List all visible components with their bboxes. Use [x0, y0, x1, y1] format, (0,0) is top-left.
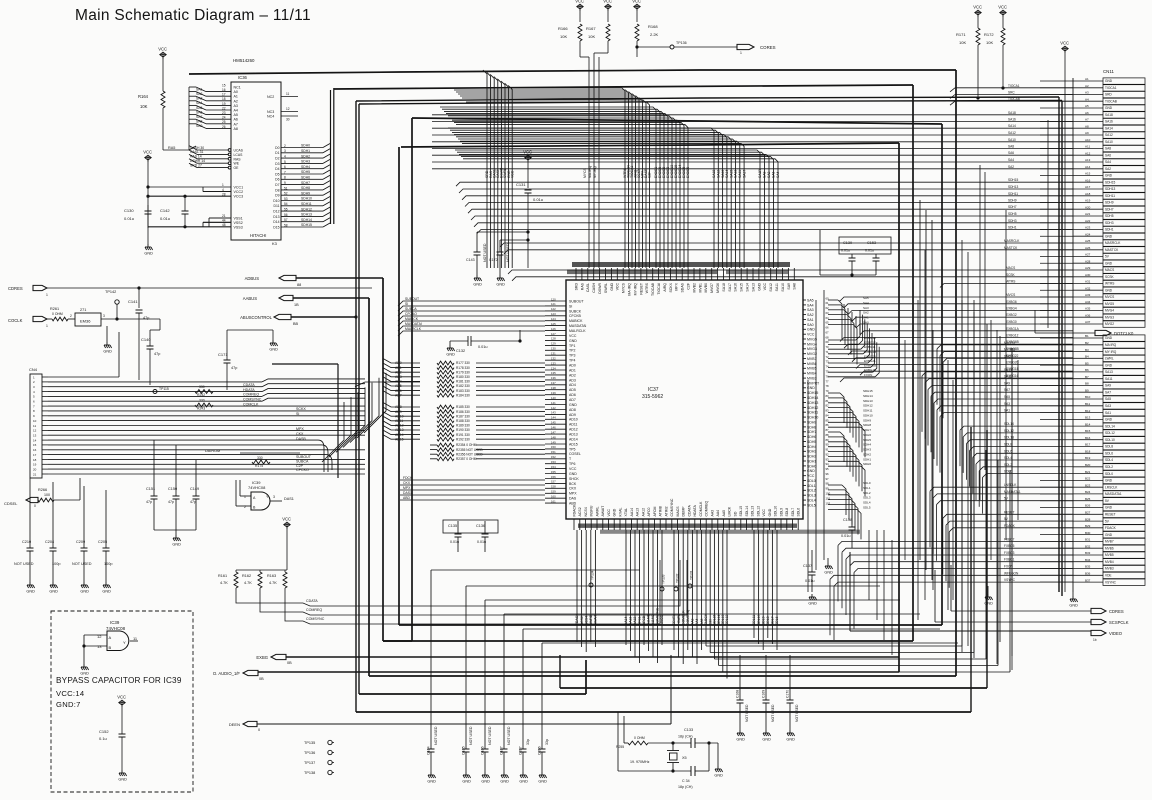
bus wire loop F right [898, 143, 900, 672]
svg-text:SDH9: SDH9 [1008, 199, 1017, 203]
svg-text:SA13: SA13 [1105, 370, 1113, 374]
svg-text:CKX: CKX [296, 432, 304, 436]
svg-text:SA3: SA3 [1105, 404, 1111, 408]
power VCC (C131) [523, 149, 532, 162]
svg-text:CDRES: CDRES [8, 286, 23, 291]
svg-text:TP2: TP2 [569, 349, 575, 353]
svg-text:MACS: MACS [676, 506, 680, 517]
svg-text:D0: D0 [275, 146, 279, 150]
svg-text:B26: B26 [1085, 504, 1091, 508]
svg-text:47p: 47p [190, 500, 196, 504]
bus wire loop F left vertical [398, 147, 400, 625]
svg-text:C164: C164 [427, 746, 431, 755]
svg-text:SDH13: SDH13 [1105, 187, 1116, 191]
svg-text:47p: 47p [143, 316, 149, 320]
svg-text:A12: A12 [1085, 151, 1091, 155]
svg-text:12: 12 [33, 429, 37, 433]
svg-text:0.01u: 0.01u [478, 345, 488, 349]
svg-text:GND: GND [569, 403, 577, 407]
svg-text:R171: R171 [956, 32, 966, 37]
svg-text:SA18: SA18 [1105, 113, 1113, 117]
svg-text:GND:7: GND:7 [56, 700, 81, 709]
svg-text:47p: 47p [146, 500, 152, 504]
resistor R261 0 OHM [47, 307, 75, 321]
svg-text:MASDATAI: MASDATAI [569, 324, 586, 328]
svg-text:SDL4: SDL4 [863, 501, 871, 505]
IC37 bottom bundle group SDL hi [704, 530, 729, 679]
svg-text:DAS1: DAS1 [284, 497, 294, 501]
svg-text:120: 120 [551, 297, 556, 301]
svg-text:MPX: MPX [569, 492, 577, 496]
svg-text:SDH9: SDH9 [863, 418, 871, 422]
wire ADBUS [296, 277, 383, 279]
svg-text:MPX: MPX [296, 427, 304, 431]
svg-text:SNC: SNC [1004, 354, 1011, 358]
svg-text:SDH8: SDH8 [301, 186, 310, 190]
svg-text:139: 139 [551, 391, 556, 395]
IC36 left address pins SA1-SA9 [189, 83, 241, 130]
svg-text:IC39: IC39 [110, 620, 120, 625]
svg-text:SA8: SA8 [763, 171, 767, 178]
svg-text:3: 3 [273, 495, 275, 499]
IC37 bottom bundle group CDATA [672, 530, 704, 664]
svg-text:MVB4: MVB4 [1105, 560, 1114, 564]
capacitor C138 0.01u [841, 505, 856, 548]
svg-text:SDH3: SDH3 [301, 160, 310, 164]
svg-text:D3: D3 [275, 162, 279, 166]
svg-text:3: 3 [103, 314, 105, 318]
svg-text:EXBG9: EXBG9 [686, 167, 690, 178]
svg-text:SDH2: SDH2 [863, 452, 871, 456]
svg-text:MVB4: MVB4 [807, 372, 817, 376]
svg-text:MACS: MACS [660, 614, 664, 625]
svg-text:152: 152 [551, 455, 556, 459]
connector arrow CDRES [8, 285, 48, 297]
svg-text:D4: D4 [275, 167, 279, 171]
svg-text:89: 89 [826, 438, 830, 442]
svg-text:94: 94 [826, 462, 830, 466]
svg-text:AD3: AD3 [569, 378, 576, 382]
wire COMSYNC to bottom [285, 560, 660, 624]
svg-text:SDL2: SDL2 [1105, 465, 1113, 469]
svg-text:MA-IRQ: MA-IRQ [588, 165, 592, 178]
svg-text:SCSK: SCSK [1006, 273, 1016, 277]
svg-text:SDH5: SDH5 [1105, 214, 1114, 218]
wire RAS to IC36 [163, 146, 196, 150]
svg-text:SDL7: SDL7 [771, 616, 775, 625]
svg-text:UCAS: UCAS [234, 149, 244, 153]
svg-text:AD0: AD0 [569, 364, 576, 368]
IC37 right fan wires SDH group [828, 389, 873, 496]
svg-text:HM514260: HM514260 [233, 58, 255, 63]
bus wire loop E top [412, 118, 942, 124]
svg-text:MVB7: MVB7 [1105, 540, 1114, 544]
svg-text:CDATA: CDATA [687, 504, 691, 516]
svg-text:AD7: AD7 [569, 398, 576, 402]
svg-text:66: 66 [826, 326, 830, 330]
svg-text:C137: C137 [803, 564, 812, 568]
svg-text:MVCS: MVCS [1006, 293, 1015, 297]
svg-text:VCC: VCC [763, 283, 767, 291]
svg-text:A7: A7 [1085, 118, 1089, 122]
wire AABUS [293, 297, 369, 299]
svg-text:SDL0: SDL0 [1105, 472, 1113, 476]
svg-text:SA10: SA10 [781, 283, 785, 292]
svg-text:AD5: AD5 [395, 384, 402, 388]
svg-text:SDH14: SDH14 [301, 218, 312, 222]
resistor R243 330 [195, 399, 213, 411]
svg-text:33p: 33p [526, 739, 530, 745]
svg-text:MVG2: MVG2 [1105, 322, 1114, 326]
svg-text:AD8: AD8 [569, 408, 576, 412]
svg-text:GND: GND [446, 353, 455, 357]
IC36 data pins D0-D15 to SDH bus [273, 144, 330, 230]
svg-text:TP1: TP1 [569, 344, 575, 348]
svg-text:RAS 14: RAS 14 [190, 155, 202, 159]
svg-text:CDSEL: CDSEL [4, 501, 18, 506]
svg-text:MPX: MPX [675, 282, 679, 290]
svg-text:TP133: TP133 [662, 574, 666, 584]
svg-text:CFCAO: CFCAO [405, 312, 417, 316]
bus wire loop A left [368, 298, 370, 676]
svg-text:AD10: AD10 [395, 414, 404, 418]
svg-text:D2: D2 [275, 157, 279, 161]
svg-text:MASRCLK: MASRCLK [1004, 239, 1020, 243]
svg-text:AD14: AD14 [569, 437, 578, 441]
bus wire pair C right [1058, 97, 1060, 592]
IC37 top label smear band 1 [572, 262, 790, 267]
svg-text:MVG6: MVG6 [716, 283, 720, 293]
bus bundle MYCS group labels [583, 165, 597, 178]
svg-text:C 34: C 34 [682, 779, 690, 783]
svg-text:0.01u: 0.01u [841, 534, 851, 538]
svg-text:TP136: TP136 [304, 751, 315, 755]
ground C171 [269, 340, 278, 352]
svg-text:C142: C142 [160, 208, 170, 213]
svg-text:B11: B11 [1085, 402, 1090, 406]
svg-text:B18: B18 [1085, 450, 1091, 454]
svg-text:A14: A14 [1085, 165, 1091, 169]
svg-text:GND: GND [49, 590, 58, 594]
ground below CN11 B rows [984, 586, 993, 606]
svg-text:A29: A29 [1085, 266, 1091, 270]
svg-text:TP132: TP132 [676, 573, 680, 583]
svg-text:SDH6: SDH6 [863, 433, 871, 437]
svg-text:C132: C132 [456, 349, 465, 353]
svg-text:EXBG1A: EXBG1A [1006, 327, 1020, 331]
svg-text:TIOCAB: TIOCAB [1008, 97, 1020, 101]
IC36 NC pins right [267, 92, 298, 122]
crystal X5 19.970MHz [630, 743, 687, 771]
svg-text:R172: R172 [984, 32, 994, 37]
svg-text:HDATA: HDATA [693, 504, 697, 516]
svg-text:SA0: SA0 [807, 323, 814, 327]
svg-text:SDH7: SDH7 [1008, 205, 1017, 209]
svg-text:MASDATAI: MASDATAI [405, 322, 422, 326]
svg-text:0.01u: 0.01u [477, 540, 486, 544]
svg-text:SDH11: SDH11 [301, 202, 312, 206]
resistor R168 2.2K [635, 11, 659, 47]
bypass capacitor box for IC39 [51, 611, 193, 792]
svg-text:4.7K: 4.7K [269, 581, 277, 585]
svg-text:WTRS: WTRS [1105, 282, 1114, 286]
svg-text:SDL6: SDL6 [1105, 452, 1113, 456]
svg-text:MASRCLK: MASRCLK [1105, 241, 1121, 245]
svg-text:VCC: VCC [762, 509, 766, 517]
bus wire loop B top [334, 85, 913, 89]
title text [75, 7, 311, 24]
svg-text:0B: 0B [259, 677, 264, 681]
svg-text:C135: C135 [448, 524, 457, 528]
bus bundle WTRS group verticals [452, 88, 652, 268]
svg-text:A3: A3 [1085, 91, 1089, 95]
svg-text:AD6: AD6 [569, 393, 576, 397]
wire VCC to CN11 [1064, 53, 1066, 592]
wire risers x920 group [920, 200, 932, 580]
svg-text:SA13: SA13 [751, 283, 755, 292]
svg-text:SA6: SA6 [1008, 151, 1014, 155]
svg-text:AIRQ: AIRQ [663, 283, 667, 292]
svg-text:SA16: SA16 [1105, 120, 1113, 124]
svg-text:GND: GND [500, 780, 509, 784]
wire risers right of IC37 [962, 300, 1012, 656]
ground C143 [473, 275, 482, 287]
svg-text:R178 330: R178 330 [456, 366, 470, 370]
IC37 left pins [545, 297, 586, 505]
CN11 B-side SDL labels [1004, 422, 1014, 474]
svg-text:10K: 10K [140, 104, 148, 109]
svg-text:B7: B7 [1085, 375, 1089, 379]
svg-text:18p (CH): 18p (CH) [678, 735, 693, 739]
svg-text:AD9: AD9 [569, 413, 576, 417]
svg-text:16: 16 [33, 448, 37, 452]
capacitor C167 [500, 614, 921, 772]
resistor R171 10K [956, 17, 980, 99]
svg-text:GND: GND [762, 738, 771, 742]
svg-text:ACS2: ACS2 [578, 507, 582, 516]
test point TP138 [304, 770, 334, 775]
svg-text:SDL0: SDL0 [863, 481, 871, 485]
svg-text:A10: A10 [1085, 138, 1091, 142]
IC37 bottom bundle group AA [624, 530, 664, 663]
svg-text:AD11: AD11 [395, 419, 403, 423]
svg-text:NOT USED: NOT USED [506, 243, 510, 262]
svg-text:SUBOUT: SUBOUT [296, 455, 312, 459]
svg-text:GND: GND [481, 780, 490, 784]
svg-text:C2P: C2P [296, 464, 304, 468]
svg-text:B15: B15 [1085, 429, 1091, 433]
svg-text:B23: B23 [1085, 483, 1091, 487]
svg-text:SDH5: SDH5 [863, 438, 871, 442]
svg-text:R182 330: R182 330 [456, 384, 470, 388]
connector arrow EXBG [256, 654, 292, 665]
svg-text:C206: C206 [538, 746, 542, 755]
svg-text:SA17: SA17 [728, 283, 732, 292]
svg-text:R179 330: R179 330 [456, 370, 470, 374]
IC37 right fan wires SDL group [828, 481, 871, 539]
svg-text:AD2: AD2 [569, 373, 576, 377]
svg-text:NOT USED: NOT USED [745, 704, 749, 722]
capacitor C132 0.01u [446, 330, 521, 357]
svg-text:SDH10: SDH10 [301, 197, 312, 201]
svg-text:SA4: SA4 [1105, 160, 1111, 164]
svg-text:AWRB: AWRB [589, 614, 593, 625]
ground C168 [736, 730, 745, 742]
svg-text:SDL10: SDL10 [1105, 438, 1115, 442]
svg-text:COMREQ: COMREQ [705, 500, 709, 516]
svg-text:SA12: SA12 [1008, 131, 1016, 135]
svg-text:SDH3: SDH3 [1008, 219, 1017, 223]
IC37 bottom pins [572, 498, 800, 530]
svg-text:EXBG6: EXBG6 [1006, 300, 1017, 304]
test point TP133 [660, 574, 666, 591]
bus wire loop A bottom [369, 675, 956, 677]
svg-text:R163: R163 [267, 574, 276, 578]
svg-text:SDH15: SDH15 [863, 389, 873, 393]
ic 271 EM36 filter [70, 308, 105, 326]
svg-text:A16: A16 [1085, 178, 1091, 182]
ground C169 [762, 730, 771, 742]
svg-text:CORES: CORES [760, 45, 776, 50]
capacitor C209 [76, 486, 88, 582]
svg-text:GND: GND [172, 543, 181, 547]
capacitor C130 0.01u [124, 205, 152, 228]
svg-text:TP134: TP134 [591, 570, 595, 580]
svg-text:LRSCLK: LRSCLK [1105, 485, 1118, 489]
svg-text:SDL12: SDL12 [756, 506, 760, 517]
svg-text:A5: A5 [234, 113, 238, 117]
svg-text:FXON: FXON [864, 373, 872, 377]
svg-text:1: 1 [740, 51, 742, 55]
CN11 feed wires SA group [432, 111, 1073, 169]
wire crossing verticals right mid [808, 120, 1048, 655]
svg-text:A15: A15 [1085, 172, 1091, 176]
svg-text:B13: B13 [1085, 416, 1091, 420]
svg-text:C166: C166 [481, 746, 485, 755]
power VCC (R166) [575, 0, 584, 11]
svg-text:MVB6: MVB6 [807, 362, 817, 366]
svg-text:SDL6: SDL6 [1004, 449, 1012, 453]
svg-text:82: 82 [826, 404, 830, 408]
ground C167 [500, 772, 509, 784]
svg-text:AD12: AD12 [569, 428, 578, 432]
ic IC36 HM514260 body [231, 58, 281, 246]
svg-text:B3: B3 [1085, 348, 1089, 352]
svg-text:CDATA: CDATA [306, 599, 318, 603]
svg-text:VCC: VCC [998, 4, 1007, 9]
svg-text:DSWR: DSWR [598, 283, 602, 294]
svg-text:SA3: SA3 [863, 306, 869, 310]
svg-text:XTAL: XTAL [624, 508, 628, 517]
svg-text:SA1: SA1 [807, 318, 814, 322]
svg-text:EM36: EM36 [80, 319, 91, 324]
svg-text:GND: GND [269, 348, 278, 352]
svg-text:SDL8: SDL8 [785, 508, 789, 517]
svg-text:SDL1: SDL1 [863, 486, 871, 490]
svg-text:124: 124 [551, 317, 556, 321]
svg-text:GND: GND [80, 672, 89, 676]
svg-text:AFCM: AFCM [653, 507, 657, 517]
test point TP135 [304, 740, 334, 745]
svg-text:47p: 47p [154, 352, 160, 356]
svg-text:A5: A5 [1085, 104, 1089, 108]
svg-text:2: 2 [70, 314, 72, 318]
svg-text:B9: B9 [1085, 388, 1089, 392]
svg-text:SDH4: SDH4 [863, 443, 871, 447]
svg-text:A3: A3 [234, 104, 238, 108]
svg-text:SDH7: SDH7 [301, 181, 310, 185]
svg-text:SDH14: SDH14 [863, 394, 873, 398]
svg-text:R166: R166 [558, 26, 568, 31]
svg-text:TIOCAB: TIOCAB [651, 282, 655, 296]
svg-text:SDH11: SDH11 [807, 411, 818, 415]
ground C207 [519, 772, 528, 784]
bus wire loop B right [912, 85, 914, 641]
wire diagonal bundle CN4 to IC37 feeds [322, 373, 386, 462]
svg-text:AD14: AD14 [395, 433, 404, 437]
svg-text:AFC0: AFC0 [647, 508, 651, 517]
svg-text:SDL1B: SDL1B [1004, 436, 1014, 440]
resistor R255 0 OHM [616, 712, 691, 771]
connector arrow ADBUS [245, 275, 302, 287]
svg-text:AD12: AD12 [395, 424, 404, 428]
svg-text:SDH0: SDH0 [863, 462, 871, 466]
svg-text:C2F: C2F [687, 283, 691, 290]
svg-text:SDL7: SDL7 [791, 508, 795, 517]
svg-text:VSYNC: VSYNC [1004, 578, 1016, 582]
wire riser x987 [560, 430, 987, 688]
svg-text:NOT USED: NOT USED [483, 243, 487, 262]
svg-text:SDH13: SDH13 [807, 401, 818, 405]
bus wire loop E left vertical [411, 118, 413, 641]
svg-text:21: 21 [33, 472, 37, 476]
wire IC37 bottom riser x586 [585, 660, 587, 694]
svg-text:14: 14 [33, 438, 37, 442]
svg-text:SDH15: SDH15 [301, 223, 312, 227]
capacitor C131 0.01u [516, 162, 543, 268]
svg-text:123: 123 [551, 312, 556, 316]
svg-text:271: 271 [80, 308, 86, 312]
capacitor C143 NOT USED [466, 231, 529, 275]
svg-text:AA13: AA13 [629, 617, 633, 625]
svg-text:1b: 1b [1093, 638, 1097, 642]
svg-text:SA6: SA6 [1105, 153, 1111, 157]
svg-text:SRD: SRD [1105, 93, 1112, 97]
svg-text:GND: GND [1105, 336, 1113, 340]
svg-text:88: 88 [826, 433, 830, 437]
svg-text:A20: A20 [1085, 205, 1091, 209]
svg-text:VCC: VCC [569, 334, 577, 338]
svg-text:SA2: SA2 [767, 171, 771, 178]
svg-text:RAS: RAS [234, 157, 242, 161]
capacitor C135 0.01u [448, 521, 462, 552]
capacitor C210 [22, 478, 34, 582]
svg-text:TP131: TP131 [690, 570, 694, 580]
svg-text:B24: B24 [1085, 490, 1091, 494]
svg-text:B30: B30 [1085, 531, 1091, 535]
svg-text:AD5: AD5 [569, 388, 576, 392]
test point TP136b [304, 750, 334, 755]
power VCC (R161 group) [282, 516, 291, 529]
svg-text:137: 137 [551, 381, 556, 385]
svg-text:ACS2: ACS2 [580, 616, 584, 625]
svg-text:SDL4: SDL4 [1004, 456, 1012, 460]
svg-text:C2F: C2F [648, 172, 652, 178]
svg-text:10K: 10K [588, 34, 595, 39]
svg-text:20: 20 [33, 467, 37, 471]
svg-text:RESET: RESET [639, 282, 643, 295]
svg-text:GND: GND [1105, 174, 1113, 178]
